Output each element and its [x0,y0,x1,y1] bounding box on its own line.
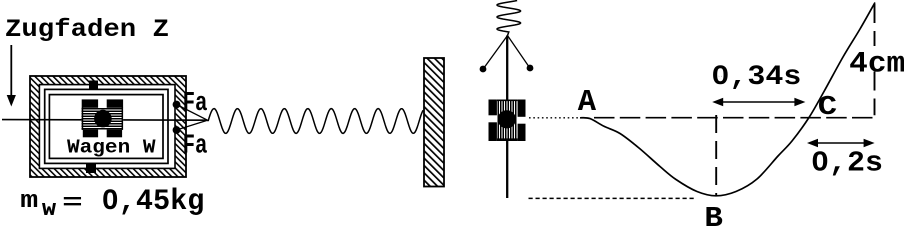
svg-text:0,2s: 0,2s [811,147,883,180]
attachment dot bottom [173,126,181,134]
svg-text:0,45kg: 0,45kg [102,184,205,218]
svg-text:A: A [578,86,597,120]
vertical spring [497,1,521,36]
thread right with bead [508,36,530,68]
cart motor icon: striped body [82,108,123,130]
arrow Zugfaden Z pointer [10,45,12,96]
svg-text:Zugfaden Z: Zugfaden Z [5,15,169,44]
displacement-time curve A-B-C [580,3,875,196]
thread left with bead [484,36,508,69]
wall (hatched) [424,58,444,187]
double arrow 0,34s [716,101,802,103]
wire: horizontal axis line [2,119,208,122]
cart inner double rectangle [45,89,168,163]
vertical motor icon: wheel circle [498,110,516,128]
thread top to spring [177,105,208,121]
dotted line at B level [529,197,696,199]
clamp tick top [89,81,98,90]
cart motor icon: corner blocks [82,99,98,107]
zero counter patches [108,196,112,202]
svg-text:=: = [62,190,83,216]
thread bottom to spring [177,120,208,130]
vertical motor icon: side blocks [489,100,497,116]
svg-text:Fa: Fa [183,132,208,162]
svg-text:Wagen W: Wagen W [67,137,156,159]
svg-text:B: B [704,202,723,232]
clamp tick bottom [86,164,96,173]
cart frame outer hatched ring [30,76,186,177]
double arrow 0,2s [811,142,871,144]
vertical motor icon: striped body [497,101,518,139]
dashed vertical line at 4cm (lower) [874,72,876,116]
cart motor icon: wheel circle [94,110,112,128]
rod [506,36,508,199]
vertical motor icon: end bars [497,100,518,102]
dotted line at A level (left) [529,117,580,119]
dashed vertical line at 4cm (upper) [874,4,876,46]
svg-text:W: W [42,200,57,221]
svg-text:m: m [20,188,38,215]
svg-text:4cm: 4cm [849,46,904,80]
dashed horizontal line at A/C level [594,117,875,119]
attachment dot top [173,101,181,109]
dashed vertical line at B [715,115,717,196]
svg-text:Fa: Fa [183,89,208,119]
svg-text:0,34s: 0,34s [711,62,801,93]
svg-text:C: C [818,93,837,123]
spring between cart and wall [207,119,210,122]
cart motor icon: side bars [82,108,84,130]
